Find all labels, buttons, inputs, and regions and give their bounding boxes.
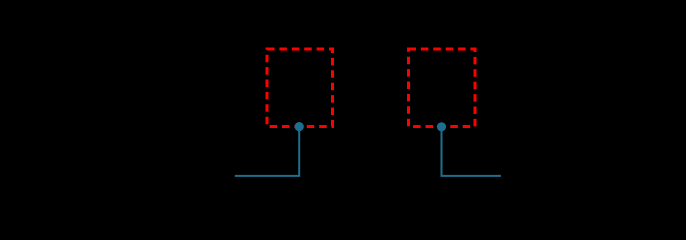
wire from node B (down then right)	[442, 127, 501, 176]
highlight box 1 (red dashed)	[267, 49, 333, 127]
wire from node A (down then left)	[235, 127, 299, 176]
node A dot	[295, 122, 304, 131]
node B dot	[437, 122, 446, 131]
highlight box 2 (red dashed)	[409, 49, 476, 127]
